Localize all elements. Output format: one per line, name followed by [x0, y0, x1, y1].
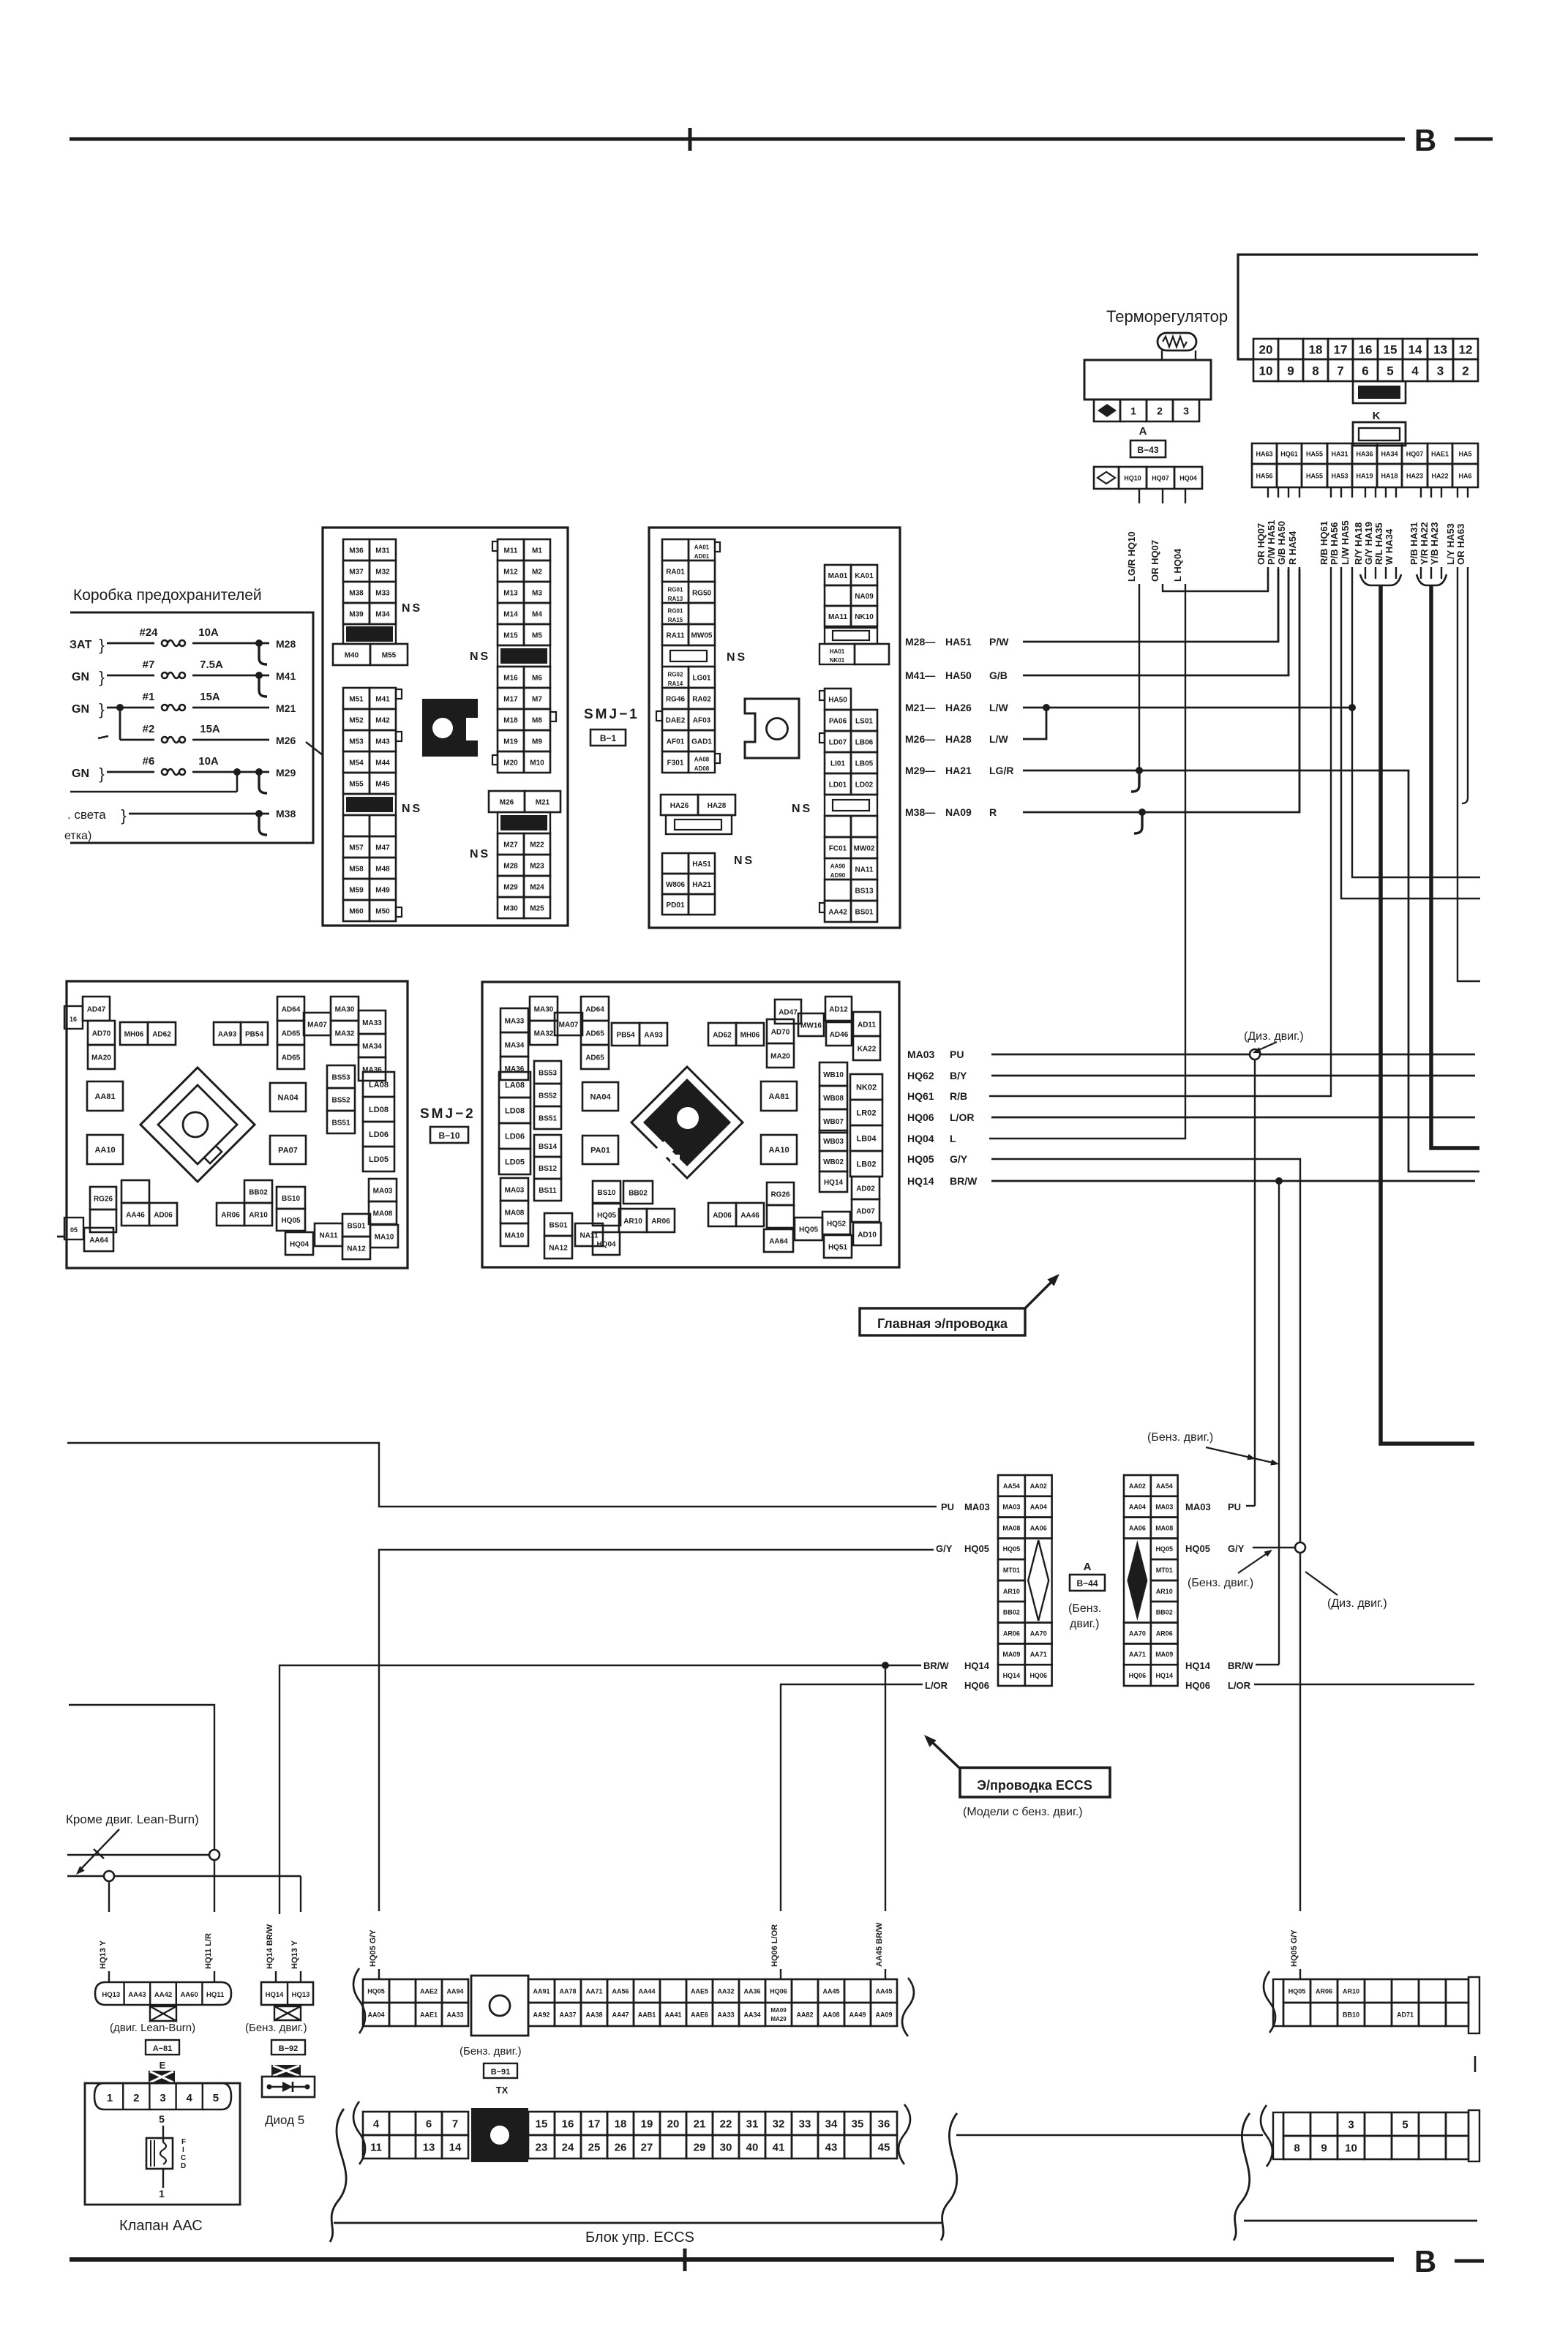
- svg-text:AA33: AA33: [717, 2011, 734, 2018]
- svg-text:M16: M16: [503, 674, 518, 682]
- svg-text:M50: M50: [375, 907, 390, 915]
- SMJ-1 B cells left column upper: [662, 539, 689, 560]
- svg-text:L/Y HA53: L/Y HA53: [1445, 523, 1456, 565]
- svg-text:M28—: M28—: [905, 636, 935, 648]
- tick left of fuse #2: [98, 736, 108, 738]
- svg-text:M60: M60: [349, 907, 364, 915]
- svg-text:MH06: MH06: [740, 1031, 760, 1039]
- svg-text:NS: NS: [734, 855, 754, 867]
- svg-text:Коробка предохранителей: Коробка предохранителей: [73, 587, 262, 604]
- SMJ-2 B cells AD12/AD46: [825, 997, 852, 1021]
- svg-text:L HQ04: L HQ04: [1172, 548, 1183, 582]
- svg-text:HA55: HA55: [1306, 450, 1323, 457]
- svg-text:5: 5: [1387, 364, 1393, 378]
- svg-text:M48: M48: [375, 865, 390, 873]
- svg-text:HA36: HA36: [1356, 450, 1373, 457]
- svg-text:M1: M1: [532, 547, 542, 555]
- svg-text:AA42: AA42: [828, 908, 847, 916]
- wire HQ14 BR/W right stub: [1256, 1664, 1279, 1665]
- svg-text:AA93: AA93: [218, 1030, 237, 1038]
- SMJ-1 A cells group1 (M36-M39/M31-M34): [343, 539, 370, 560]
- svg-text:AR10: AR10: [623, 1218, 642, 1226]
- SMJ-2 B cells HQ05/HQ52/HQ51: [795, 1218, 822, 1240]
- svg-text:HAE1: HAE1: [1431, 450, 1449, 457]
- svg-text:M26: M26: [500, 798, 514, 806]
- SMJ-1 A cells group3 (M57-M60/M47-M50): [343, 836, 370, 858]
- keying bowtie below B-92: [274, 2006, 301, 2020]
- wire M38-NA09 R: [1023, 569, 1299, 812]
- thermoregulator sensing element: [1158, 333, 1196, 350]
- svg-text:HA51: HA51: [945, 636, 972, 648]
- svg-text:BB10: BB10: [1343, 2011, 1359, 2018]
- SMJ-2 A cell AA81: [87, 1081, 123, 1111]
- svg-text:MA09: MA09: [770, 2007, 787, 2014]
- svg-text:M32: M32: [375, 568, 390, 576]
- net label R/B HQ61: [1330, 487, 1332, 498]
- svg-text:MA33: MA33: [505, 1017, 525, 1025]
- wire feed 3 HQ13: [67, 1875, 301, 1877]
- svg-text:M3: M3: [532, 589, 542, 597]
- svg-text:HA21: HA21: [692, 881, 711, 889]
- svg-text:36: 36: [878, 2118, 890, 2131]
- svg-text:AF01: AF01: [667, 738, 685, 746]
- svg-text:M38: M38: [349, 589, 364, 597]
- SMJ-2 B cell AD47: [775, 1000, 801, 1024]
- svg-text:NA12: NA12: [347, 1245, 366, 1253]
- svg-text:BS51: BS51: [539, 1114, 557, 1122]
- svg-text:двиг.): двиг.): [1070, 1618, 1099, 1630]
- reference box B-92: [271, 2040, 305, 2055]
- svg-text:NA09: NA09: [855, 593, 874, 601]
- svg-text:M4: M4: [532, 610, 542, 618]
- svg-text:(Бенз. двиг.): (Бенз. двиг.): [1188, 1577, 1253, 1589]
- svg-text:BB02: BB02: [1156, 1609, 1173, 1616]
- svg-text:HQ14: HQ14: [266, 1991, 285, 1999]
- svg-text:BR/W: BR/W: [950, 1175, 978, 1187]
- harness trunk wire 2 (thick): [1431, 585, 1479, 1148]
- connector B-44 left block: [998, 1475, 1025, 1496]
- svg-text:NK01: NK01: [830, 657, 845, 664]
- svg-text:M57: M57: [349, 844, 364, 852]
- svg-text:HA50: HA50: [828, 696, 847, 704]
- svg-text:M33: M33: [375, 589, 390, 597]
- svg-text:M45: M45: [375, 780, 390, 788]
- svg-text:MA08: MA08: [1155, 1524, 1173, 1531]
- wire feed to HQ11: [69, 1705, 214, 1849]
- pin hook M29: [259, 774, 267, 793]
- svg-text:HA26: HA26: [945, 702, 972, 713]
- svg-text:M41—: M41—: [905, 670, 935, 681]
- svg-text:PA06: PA06: [829, 717, 847, 725]
- svg-text:18: 18: [615, 2118, 627, 2131]
- SMJ-1 A cell tabs: [396, 689, 402, 699]
- svg-text:PD01: PD01: [666, 901, 684, 910]
- svg-text:AA78: AA78: [559, 1987, 576, 1995]
- svg-text:15: 15: [1384, 342, 1398, 356]
- svg-text:M40: M40: [345, 651, 359, 659]
- svg-text:MA11: MA11: [828, 613, 848, 621]
- svg-text:27: 27: [641, 2142, 653, 2154]
- leader to petrol wires: [1206, 1447, 1276, 1463]
- svg-text:HQ04: HQ04: [907, 1133, 934, 1144]
- ECCS unit right break curve: [941, 2113, 957, 2240]
- svg-text:HQ52: HQ52: [827, 1220, 847, 1228]
- svg-text:AF03: AF03: [693, 716, 711, 724]
- fuse box lower feed wire: [70, 791, 237, 793]
- svg-text:KA22: KA22: [858, 1045, 877, 1053]
- SMJ-2 A cell AA64: [84, 1228, 113, 1251]
- svg-text:HQ14: HQ14: [907, 1175, 934, 1187]
- svg-text:KA01: KA01: [855, 572, 874, 580]
- SMJ-2 A cells BS01/NA12: [342, 1214, 370, 1237]
- svg-text:AD70: AD70: [771, 1028, 790, 1036]
- svg-text:AD01: AD01: [694, 553, 710, 560]
- svg-text:9: 9: [1321, 2142, 1327, 2155]
- svg-text:SMJ−1: SMJ−1: [584, 707, 639, 722]
- SMJ-2 A cell AA10: [87, 1135, 123, 1164]
- svg-text:AA34: AA34: [743, 2011, 760, 2018]
- svg-text:HA01: HA01: [830, 648, 845, 655]
- wire OR HA63 vertical: [1462, 567, 1468, 803]
- svg-text:17: 17: [588, 2118, 601, 2131]
- svg-text:7: 7: [1337, 364, 1343, 378]
- unit right edge dash: [1474, 2056, 1477, 2072]
- svg-text:M24: M24: [530, 883, 544, 891]
- node HQ11 splice: [209, 1850, 220, 1860]
- connector B-92 row: [261, 1982, 313, 2005]
- junction M41: [255, 672, 263, 679]
- svg-text:Кроме двиг. Lean-Burn): Кроме двиг. Lean-Burn): [66, 1812, 199, 1826]
- svg-text:LG01: LG01: [692, 674, 710, 682]
- svg-text:AD08: AD08: [694, 765, 710, 772]
- svg-text:HQ05: HQ05: [367, 1987, 385, 1995]
- svg-text:HQ61: HQ61: [1280, 450, 1298, 457]
- junction to lower feed: [233, 768, 241, 776]
- svg-text:M12: M12: [503, 568, 518, 576]
- svg-text:15A: 15A: [200, 691, 220, 703]
- wire HQ06 L/OR: [991, 1117, 1475, 1119]
- SMJ-2 B pair PB54/AA93: [612, 1023, 639, 1046]
- svg-text:AD65: AD65: [282, 1054, 301, 1062]
- svg-text:RA02: RA02: [692, 695, 711, 703]
- wire pin5 to FICD coil: [162, 2126, 164, 2142]
- SMJ-1 A cells M26/M21: [489, 791, 525, 812]
- svg-text:3: 3: [160, 2092, 165, 2104]
- svg-text:HA28: HA28: [945, 733, 972, 745]
- svg-text:MA03: MA03: [964, 1501, 990, 1512]
- svg-text:(двиг. Lean-Burn): (двиг. Lean-Burn): [110, 2022, 195, 2034]
- SMJ-2 B cell MA07: [555, 1013, 582, 1035]
- svg-text:HQ13 Y: HQ13 Y: [290, 1940, 299, 1969]
- svg-text:LD02: LD02: [855, 781, 874, 789]
- svg-text:M2: M2: [532, 568, 542, 576]
- SMJ-1 A keying black bar 2: [343, 794, 396, 815]
- SMJ-2 B cell NA04: [582, 1082, 618, 1111]
- svg-text:P/W: P/W: [989, 636, 1009, 648]
- SMJ-2 A cell NA04: [270, 1083, 306, 1111]
- SMJ-2 B cell MW16: [798, 1013, 824, 1036]
- SMJ-2 A cells AD64/AD65/AD65: [277, 997, 304, 1021]
- svg-text:RA11: RA11: [666, 631, 684, 640]
- svg-text:21: 21: [694, 2118, 706, 2131]
- svg-text:AD47: AD47: [87, 1005, 106, 1013]
- SMJ-1 B cells HA26/HA28: [661, 795, 698, 815]
- svg-text:A: A: [1084, 1561, 1092, 1573]
- svg-text:AR06: AR06: [1156, 1629, 1173, 1637]
- SMJ-2 B cells LA08/LD08/LD06/LD05: [499, 1072, 530, 1098]
- SMJ-1 A cells M40/M55: [333, 644, 370, 665]
- svg-text:HQ05: HQ05: [1288, 1987, 1306, 1995]
- svg-text:33: 33: [799, 2118, 811, 2131]
- svg-text:M39: M39: [349, 610, 364, 618]
- wire HQ13 drop right (B-92): [300, 1876, 301, 1912]
- wire HQ05 G/Y right stub: [1253, 1547, 1295, 1548]
- svg-text:HQ06: HQ06: [1185, 1680, 1210, 1691]
- svg-text:AA44: AA44: [638, 1987, 655, 1995]
- svg-text:45: 45: [878, 2142, 890, 2154]
- svg-text:20: 20: [667, 2118, 680, 2131]
- svg-text:MA07: MA07: [559, 1021, 579, 1029]
- svg-text:HQ05: HQ05: [281, 1217, 301, 1225]
- svg-text:LD05: LD05: [369, 1155, 389, 1164]
- wire MA03 PU vertical: [1254, 1060, 1256, 1506]
- wire OR HQ07 stub: [1267, 567, 1269, 591]
- svg-text:AD10: AD10: [858, 1231, 877, 1239]
- svg-text:MA30: MA30: [534, 1005, 554, 1013]
- keying bowtie below AA42: [150, 2006, 176, 2021]
- svg-text:AA82: AA82: [796, 2011, 813, 2018]
- ECCS unit left break curve (right part): [1234, 2113, 1250, 2240]
- svg-text:2: 2: [133, 2092, 139, 2104]
- svg-text:AAE1: AAE1: [420, 2011, 438, 2018]
- svg-text:AA56: AA56: [612, 1987, 629, 1995]
- junction AA45 BR/W: [882, 1662, 889, 1669]
- ECCS unit top edge across break: [956, 2134, 1263, 2137]
- svg-text:NS: NS: [727, 651, 747, 664]
- svg-text:10A: 10A: [198, 755, 219, 768]
- net label R HA54: [1299, 487, 1300, 498]
- svg-text:HQ14: HQ14: [1155, 1672, 1173, 1679]
- svg-text:M23: M23: [530, 862, 544, 870]
- net label OR HA63: [1467, 487, 1468, 498]
- svg-text:HA53: HA53: [1331, 472, 1348, 479]
- svg-text:DAE2: DAE2: [666, 716, 686, 724]
- reference box B-91: [484, 2063, 517, 2078]
- wire HQ04 L vertical: [989, 584, 1185, 1139]
- svg-text:}: }: [99, 636, 104, 654]
- svg-text:OR HQ07: OR HQ07: [1256, 523, 1267, 565]
- svg-text:LD07: LD07: [829, 738, 847, 746]
- svg-text:24: 24: [562, 2142, 574, 2154]
- svg-text:MA32: MA32: [534, 1030, 554, 1038]
- svg-text:HQ13: HQ13: [292, 1991, 310, 1999]
- svg-text:BS01: BS01: [347, 1222, 365, 1230]
- svg-text:M28: M28: [276, 638, 296, 650]
- pin hook M28: [259, 645, 267, 664]
- svg-text:HQ05: HQ05: [1155, 1545, 1173, 1553]
- svg-text:AAE5: AAE5: [691, 1987, 708, 1995]
- ECCS harness connector strip (names): [363, 1979, 389, 2003]
- svg-text:A: A: [1139, 425, 1147, 438]
- component AAC valve box: [85, 2083, 240, 2205]
- svg-text:RA15: RA15: [668, 617, 683, 623]
- svg-text:HQ05: HQ05: [1003, 1545, 1021, 1553]
- strip right break bracket: [902, 1978, 914, 2036]
- wire M29-HA21 LG/R: [1023, 770, 1479, 1171]
- svg-text:AA70: AA70: [1030, 1629, 1047, 1637]
- svg-text:HA5: HA5: [1458, 450, 1471, 457]
- node HQ13 splice: [104, 1871, 114, 1881]
- svg-text:HQ14 BR/W: HQ14 BR/W: [266, 1924, 274, 1969]
- wire AA45 BR/W drop: [885, 1665, 886, 1911]
- svg-text:LG/R: LG/R: [989, 765, 1013, 776]
- svg-text:R/B: R/B: [950, 1090, 967, 1102]
- svg-text:M59: M59: [349, 886, 364, 894]
- svg-text:HQ06: HQ06: [907, 1111, 934, 1123]
- svg-text:OR HA63: OR HA63: [1455, 524, 1466, 565]
- svg-text:HQ06: HQ06: [1029, 1672, 1047, 1679]
- SMJ-2 A cells BS53/BS52/BS51: [327, 1065, 355, 1088]
- svg-text:M7: M7: [532, 695, 542, 703]
- svg-text:BS11: BS11: [539, 1187, 557, 1195]
- SMJ-2 A cells MA30/MA32: [331, 997, 359, 1021]
- svg-text:2: 2: [1462, 364, 1468, 378]
- svg-text:25: 25: [588, 2142, 601, 2154]
- connector rows 20-12 / 10-2: [1253, 339, 1278, 359]
- svg-text:34: 34: [825, 2118, 838, 2131]
- svg-text:16: 16: [70, 1016, 77, 1023]
- svg-text:BS13: BS13: [855, 887, 873, 895]
- svg-text:23: 23: [536, 2142, 548, 2154]
- svg-text:B−10: B−10: [438, 1130, 459, 1141]
- callout arrow: [1024, 1279, 1054, 1309]
- SMJ-2 B cells RG26/blank: [767, 1182, 794, 1205]
- wire fuse2 to M26: [192, 739, 269, 741]
- SMJ-1 B cells bottom left: [662, 853, 689, 874]
- svg-text:MA10: MA10: [375, 1233, 394, 1241]
- wire HQ07 OR to HA connector: [1163, 569, 1268, 591]
- svg-text:AA71: AA71: [1129, 1651, 1146, 1658]
- svg-text:WB08: WB08: [823, 1095, 844, 1103]
- svg-text:M8: M8: [532, 716, 542, 724]
- svg-text:PB54: PB54: [616, 1031, 634, 1039]
- svg-text:M21: M21: [276, 702, 296, 714]
- svg-text:AAE2: AAE2: [420, 1987, 438, 1995]
- svg-text:HQ11 L/R: HQ11 L/R: [204, 1933, 213, 1969]
- svg-text:L/W HA55: L/W HA55: [1340, 520, 1351, 565]
- net label R/L HA35: [1385, 487, 1387, 498]
- svg-text:LD06: LD06: [505, 1133, 525, 1141]
- SMJ-2 A cells BS10/HQ05/HQ04: [277, 1187, 305, 1209]
- SMJ-1 B slot cell 3: [825, 628, 877, 644]
- reference box A-81: [146, 2040, 179, 2055]
- svg-text:PA07: PA07: [278, 1147, 298, 1155]
- svg-text:HQ14: HQ14: [964, 1660, 990, 1671]
- svg-text:MA07: MA07: [307, 1021, 327, 1029]
- svg-text:AR10: AR10: [1156, 1588, 1173, 1595]
- svg-text:MW16: MW16: [800, 1021, 822, 1030]
- svg-text:BB02: BB02: [1003, 1609, 1020, 1616]
- SMJ-2 B cells WB03/WB02/HQ14: [819, 1130, 847, 1151]
- SMJ-2 A cells MA03/MA08/MA10: [369, 1179, 397, 1201]
- svg-text:GN: GN: [72, 703, 89, 716]
- svg-text:P/B HA56: P/B HA56: [1329, 522, 1340, 565]
- svg-text:HQ05 G/Y: HQ05 G/Y: [1290, 1929, 1299, 1967]
- SMJ-2 A cells top-left: [83, 997, 110, 1021]
- leader to HQ05 vertical: [1305, 1572, 1338, 1595]
- svg-text:HA6: HA6: [1458, 472, 1471, 479]
- svg-text:NS: NS: [792, 803, 812, 815]
- svg-text:10A: 10A: [198, 626, 219, 639]
- reference box B-43: [1130, 440, 1166, 457]
- svg-text:FC01: FC01: [829, 844, 847, 852]
- svg-text:R/B HQ61: R/B HQ61: [1318, 521, 1329, 565]
- svg-text:MA20: MA20: [770, 1052, 790, 1060]
- svg-text:M22: M22: [530, 841, 544, 849]
- svg-text:SMJ−2: SMJ−2: [420, 1106, 476, 1122]
- svg-text:MT01: MT01: [1003, 1567, 1020, 1574]
- svg-text:32: 32: [773, 2118, 785, 2131]
- ECCS unit bottom edge (right): [1244, 2220, 1477, 2222]
- svg-text:AA92: AA92: [533, 2011, 549, 2018]
- svg-text:22: 22: [720, 2118, 732, 2131]
- svg-text:HQ05: HQ05: [907, 1153, 934, 1165]
- svg-text:14: 14: [1408, 342, 1422, 356]
- wire HQ14 lower segment: [279, 1911, 280, 1914]
- svg-text:RG26: RG26: [770, 1190, 790, 1199]
- SMJ-2 B cell AA81: [761, 1081, 797, 1111]
- svg-text:AA70: AA70: [1129, 1629, 1146, 1637]
- svg-text:G/Y: G/Y: [1228, 1543, 1245, 1554]
- svg-text:}: }: [99, 668, 104, 686]
- svg-text:AD11: AD11: [858, 1021, 876, 1029]
- svg-text:(Бенз. двиг.): (Бенз. двиг.): [245, 2022, 307, 2034]
- wire fuse6 to M29: [192, 771, 269, 773]
- SMJ-1 A keying black bar 4: [498, 812, 550, 833]
- SMJ-2 A pair AR06/AR10: [217, 1203, 244, 1226]
- svg-text:M17: M17: [503, 695, 518, 703]
- svg-text:MT01: MT01: [1156, 1567, 1173, 1574]
- junction M28: [255, 640, 263, 647]
- svg-text:29: 29: [694, 2142, 706, 2154]
- svg-text:7.5A: 7.5A: [200, 659, 223, 671]
- svg-text:MA03: MA03: [505, 1186, 525, 1194]
- connector keying box below pins 6-5: [1353, 381, 1406, 403]
- svg-text:M34: M34: [375, 610, 390, 618]
- SMJ-2 A pair MH06/AD62: [120, 1022, 148, 1045]
- svg-text:AA60: AA60: [180, 1991, 198, 1999]
- svg-text:BR/W: BR/W: [923, 1660, 949, 1671]
- wire M26-HA28 L/W riser: [1023, 708, 1046, 739]
- right pin strip left bracket: [1261, 2105, 1272, 2167]
- svg-text:AA81: AA81: [94, 1092, 115, 1101]
- svg-text:BB02: BB02: [249, 1188, 268, 1196]
- svg-text:NA09: NA09: [945, 806, 972, 818]
- svg-text:1: 1: [107, 2092, 113, 2104]
- svg-text:K: K: [1373, 410, 1381, 422]
- svg-text:(Бенз. двиг.): (Бенз. двиг.): [459, 2045, 522, 2058]
- svg-text:GN: GN: [72, 768, 89, 780]
- svg-text:M29: M29: [503, 883, 518, 891]
- svg-text:NA11: NA11: [579, 1231, 598, 1239]
- svg-text:LD05: LD05: [505, 1158, 525, 1167]
- SMJ-2 B cells NK02/LR02/LB04/LB02: [850, 1074, 882, 1100]
- svg-text:M14: M14: [503, 610, 518, 618]
- svg-text:M6: M6: [532, 674, 542, 682]
- net label L/Y HA53: [1457, 487, 1458, 498]
- SMJ-2 B cells WB10/WB08/WB07: [819, 1062, 847, 1086]
- SMJ-2 B cells AD11/KA22: [853, 1012, 880, 1036]
